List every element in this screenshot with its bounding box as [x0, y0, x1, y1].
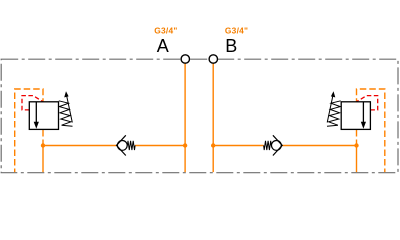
relief valve RV2 spring [327, 101, 341, 127]
wire: right bus from node B line to check valve V2 [213, 145, 263, 147]
pilot sense line (red dashed) of relief valve RV2 [357, 96, 378, 110]
relief valve RV1 adjust arrow [67, 97, 73, 123]
relief valve RV1 body (left square) [29, 102, 58, 130]
check valve CV1 spring [127, 141, 135, 150]
relief valve RV2 body (right square) [341, 102, 370, 130]
svg-text:B: B [225, 36, 237, 56]
wire: port B vertical line [212, 63, 214, 172]
wire: right bus from check valve V2 to relief valve junction [282, 145, 356, 147]
check valve CV2 (right) ball [272, 141, 282, 151]
pilot sense line (red dashed) of relief valve RV1 [22, 96, 43, 110]
wire: port A vertical line [184, 63, 186, 172]
wire: left junction down to tank boundary [42, 144, 44, 172]
junction dot at left relief valve drain [41, 143, 45, 147]
pilot/drain dashed line of relief valve RV2 (orange dashed box, right) [357, 89, 385, 172]
check valve CV2 spring [264, 141, 272, 150]
junction dot at node B [211, 143, 215, 147]
svg-text:G3/4": G3/4" [225, 25, 248, 35]
wire: right relief valve drain (dashed) to junction [356, 130, 358, 144]
wire: left bus from check valve V1 to node A line [135, 145, 185, 147]
port A circle [181, 55, 189, 63]
check valve CV1 seat [117, 135, 126, 155]
svg-text:A: A [157, 36, 169, 56]
manifold block boundary (dash-dot) [1, 59, 398, 173]
pilot/drain dashed line of relief valve RV1 (orange dashed box, left) [15, 89, 43, 172]
check valve CV2 seat [273, 135, 282, 155]
relief valve RV2 adjust arrow [327, 97, 333, 123]
junction dot at right relief valve drain [354, 143, 358, 147]
wire: left bus from relief valve junction to check valve V1 [43, 145, 116, 147]
relief valve RV1 spring [59, 101, 73, 127]
svg-text:G3/4": G3/4" [154, 25, 177, 35]
check valve CV1 (left) ball [117, 141, 127, 151]
relief valve RV1 flow arrow [35, 102, 37, 122]
relief valve RV2 flow arrow [362, 102, 364, 122]
wire: left relief valve drain (dashed) to junction [42, 130, 44, 144]
wire: right junction down to tank boundary [356, 144, 358, 172]
junction dot at node A [183, 143, 187, 147]
port B circle [209, 55, 217, 63]
